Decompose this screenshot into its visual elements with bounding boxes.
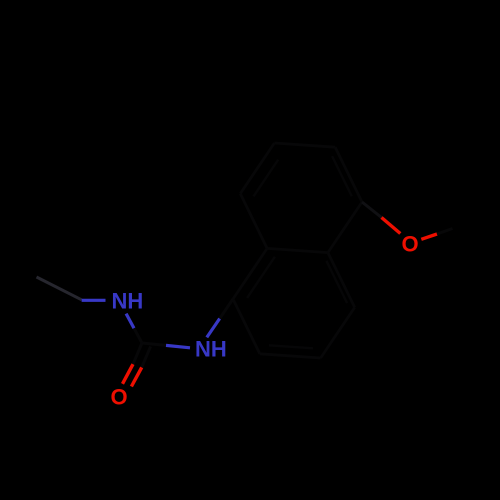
svg-text:O: O [402,231,419,256]
wire ring A edge C4a-C8a [328,253,355,308]
wire inner double bond C7-C8 [254,160,279,197]
wire ring A edge C1-C2 [233,248,267,299]
bond N2-ring C2 : C half dark [220,299,233,319]
ethyl CH3-CH2 bond [37,277,82,300]
bond N2-ring C2 : N half blue [207,319,220,338]
wire inner double bond C6-C5ome [332,156,352,196]
wire ring B edge C8a-C8 [240,194,267,249]
wire ring B edge C7-C6 [274,143,335,147]
bond CH2-N1 (blue) [82,299,106,302]
wire ring B edge C8-C7 [240,143,274,194]
wire ring A edge C3-C4 [260,354,321,358]
carbonyl C=O double bond line 1 : O half red [123,364,134,384]
svg-text:NH: NH [195,337,227,362]
aromatic inner double-bond lines [247,156,352,348]
naphthalene ring B (upper ring, bears methoxy) [240,143,362,253]
bond N1-C carbonyl : C half dark [134,328,142,343]
wire ring B edge C5-C4a [328,202,362,253]
bond ring C5ome - O2 : C half dark [362,202,382,218]
bond O2 - OCH3 : O half red [421,234,437,239]
wire inner double bond C4a-C8a [326,261,347,303]
carbonyl C=O double bond line 2 : C half dark [142,346,151,367]
wire inner double bond C3-C4 [269,345,313,348]
wire ring A edge C4-C4a [321,307,355,358]
svg-text:O: O [111,384,128,409]
carbonyl C=O double bond line 1 : C half dark [133,343,142,364]
bond C-N2 : N half blue [166,345,190,347]
bond O2 - OCH3 : C half dark [437,229,453,235]
wire ring B edge C6-C5 (C_ome) [335,147,362,202]
naphthalene ring A (lower ring, C2 attached to urea N) [233,248,355,358]
carbonyl C=O double bond line 2 : O half red [131,367,141,386]
bond C-N2 : C half dark [142,343,166,345]
svg-text:NH: NH [112,289,144,314]
wire ring A edge C8a-C1 [267,248,328,252]
bond ring C5ome - O2 : O half red [382,218,401,234]
wire inner double bond C1-C2 [247,257,275,298]
wire ring A edge C2-C3 [233,299,260,354]
bond N1-C carbonyl : N half blue [126,314,134,329]
